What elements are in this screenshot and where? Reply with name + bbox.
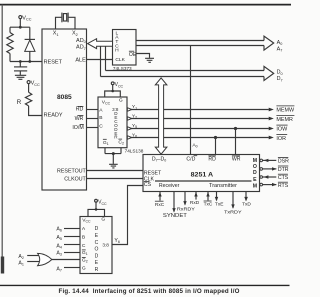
pin RTS [260, 182, 289, 189]
svg-text:8251 A: 8251 A [191, 172, 214, 179]
wire A5 input [64, 236, 80, 238]
ground (latch OE) [145, 58, 154, 62]
pin WR (8251) [232, 156, 241, 162]
svg-text:Receiver: Receiver [159, 183, 180, 189]
diode D1 [25, 39, 35, 61]
svg-text:RxD: RxD [190, 200, 200, 206]
power VCC2 terminal [27, 81, 40, 87]
pin G1 (decoder2) [82, 250, 88, 256]
svg-text:CLK: CLK [115, 57, 125, 63]
svg-text:RD: RD [76, 107, 84, 113]
svg-text:RD: RD [208, 156, 216, 162]
wire VCC2 down [28, 84, 30, 93]
svg-text:IOW: IOW [276, 126, 288, 132]
svg-text:OE: OE [129, 52, 137, 58]
pin RD [76, 106, 84, 112]
pin TxRDY [224, 192, 242, 216]
internal divider line [155, 180, 252, 182]
pin C2 (decoder1) [118, 139, 124, 146]
svg-text:3:8: 3:8 [102, 242, 109, 247]
svg-text:Transmitter: Transmitter [209, 183, 237, 189]
wire A6 input [64, 228, 80, 230]
svg-text:74LS138: 74LS138 [125, 149, 144, 154]
or-gate G1 [38, 253, 52, 265]
wire RESETOUT to 8251 RESET [87, 170, 144, 172]
svg-text:G: G [82, 265, 86, 271]
svg-text:C: C [99, 124, 103, 130]
svg-text:RxC: RxC [155, 202, 165, 208]
node junction VCC1 [19, 26, 22, 29]
wire top of RC [10, 27, 30, 39]
node junction IOW to WR [234, 127, 237, 130]
svg-text:R: R [95, 267, 99, 273]
bus A0-A7 address bus [136, 36, 282, 53]
pin C/D (8251) [186, 156, 197, 163]
left border blob [1, 257, 4, 274]
svg-text:CTS: CTS [278, 175, 289, 181]
svg-text:O: O [253, 164, 257, 170]
svg-text:MEMW: MEMW [276, 107, 295, 113]
svg-text:READY: READY [44, 113, 63, 119]
svg-text:G: G [119, 97, 123, 103]
svg-text:TxRDY: TxRDY [224, 210, 242, 216]
pin RD (8251) [208, 156, 216, 162]
wire IOW line [127, 127, 274, 131]
svg-text:RxRDY: RxRDY [177, 206, 196, 212]
CPU 8085 [42, 29, 87, 190]
wire resistor to reset rail [9, 54, 11, 62]
net MEMR [276, 116, 294, 123]
pin G2 (decoder2) [82, 257, 88, 263]
svg-text:C: C [82, 243, 86, 249]
wire ALE to latch CLK [87, 59, 113, 61]
svg-text:RESETOUT: RESETOUT [57, 168, 87, 174]
wire IOW to 8251 WR [235, 129, 237, 155]
pin TxE [215, 192, 224, 208]
power VCC3 terminal [111, 82, 123, 88]
net IOR [276, 135, 287, 142]
wire WR to decoder B [87, 118, 99, 120]
svg-text:D7–D0: D7–D0 [152, 156, 166, 162]
node junction IOR to RD [214, 136, 217, 139]
net IOW [276, 125, 288, 132]
ground (capacitor) [15, 75, 26, 79]
wire IO/M to decoder C [87, 127, 99, 129]
capacitor C1 [14, 62, 27, 75]
svg-text:M: M [253, 183, 257, 189]
latch U2 74LS373 [113, 30, 137, 66]
decoder U4 (address decoder) [80, 217, 112, 274]
pin WR [75, 116, 84, 122]
wire A7 input [64, 267, 80, 269]
resistor R1 (reset pull-up) [7, 33, 13, 54]
pin RxRDY [177, 192, 196, 213]
wire A4 input [64, 244, 80, 246]
svg-text:TxE: TxE [215, 201, 224, 207]
wire IOR to 8251 RD [215, 138, 217, 155]
svg-text:IO/M: IO/M [72, 125, 83, 131]
bus arrow AD0-AD7 (latch to 8085) [88, 39, 113, 49]
svg-text:RTS: RTS [278, 183, 289, 189]
svg-text:TxC: TxC [204, 201, 213, 207]
svg-text:B: B [99, 115, 102, 121]
top border line [0, 4, 291, 6]
pin OE (latch) [129, 51, 137, 58]
wire RD to decoder A [87, 109, 99, 111]
pin RxC [155, 192, 165, 208]
wire A3 input [64, 252, 80, 254]
pin SYNDET [163, 192, 187, 220]
svg-text:C/D: C/D [186, 156, 195, 162]
pin TxC [204, 192, 213, 208]
wire A1 to OR [27, 261, 40, 263]
pin RxD [190, 192, 200, 207]
svg-text:MEMR: MEMR [276, 117, 293, 123]
wire enable pins to ground [105, 148, 121, 164]
svg-text:ALE: ALE [75, 57, 86, 63]
svg-text:CS: CS [144, 182, 152, 188]
svg-text:IOR: IOR [276, 136, 286, 142]
wire A0 to C/D of 8251 [190, 46, 192, 155]
svg-text:DSR: DSR [278, 158, 289, 164]
pin G1 (decoder1) [103, 139, 109, 146]
svg-text:Fig. 14.44 Interfacing of 825: Fig. 14.44 Interfacing of 8251 with 8085… [59, 288, 240, 295]
svg-text:C: C [95, 240, 99, 246]
wire VCC bracket decoder2 [88, 202, 105, 216]
svg-text:O: O [94, 247, 98, 253]
power VCC1 terminal [19, 15, 32, 21]
svg-text:RESET: RESET [44, 59, 63, 65]
wire Y6 to CS [112, 186, 143, 245]
crystal X1 [56, 13, 76, 29]
bus arrow D7-D0 vertical to 8251 [155, 78, 167, 154]
svg-text:DTR: DTR [278, 167, 289, 173]
wire VCC1 down [19, 19, 21, 28]
pin DSR [260, 158, 289, 165]
wire IOR line [127, 136, 274, 140]
wire A2 to OR [27, 255, 40, 257]
svg-text:D: D [253, 170, 257, 176]
left border line [1, 5, 3, 258]
svg-text:G: G [101, 216, 105, 222]
net MEMW [276, 106, 295, 113]
USART 8251A [143, 155, 260, 192]
bus D0-D7 data bus [101, 66, 283, 82]
pin DTR [260, 166, 289, 173]
label DECODER vertical (decoder1) [114, 111, 118, 140]
pin TxD [242, 192, 251, 208]
svg-text:WR: WR [232, 156, 241, 162]
svg-text:E: E [253, 177, 257, 183]
node junction VCC3 [111, 90, 114, 93]
node junction VCC4 [95, 208, 98, 211]
wire CLKOUT to 8251 CLK [87, 178, 144, 180]
svg-text:SYNDET: SYNDET [163, 213, 187, 219]
pin CS (8251) [144, 182, 152, 188]
pin IO/M [72, 125, 83, 131]
svg-text:R: R [17, 99, 22, 106]
label DECODER vertical (decoder2) [94, 226, 98, 273]
svg-text:D: D [95, 226, 99, 232]
svg-text:TxD: TxD [242, 202, 251, 208]
svg-text:B: B [82, 234, 85, 240]
wire data bus ribbon verticals [101, 46, 106, 76]
node junction ground decoder1 [112, 152, 115, 155]
label LATCH vertical [115, 30, 119, 53]
svg-text:8085: 8085 [57, 94, 72, 101]
wire VCC bracket decoder1 [105, 85, 121, 97]
decoder U3 74LS138 [98, 97, 127, 148]
wire MEMW line [127, 108, 274, 112]
pin CTS [260, 174, 289, 181]
svg-text:H: H [115, 48, 119, 54]
wire OE to ground [136, 54, 150, 58]
svg-text:WR: WR [75, 116, 84, 122]
svg-text:D: D [95, 253, 99, 259]
label MODEM vertical [253, 158, 257, 189]
caption rule [0, 284, 290, 286]
node junction diode [28, 60, 31, 63]
power VCC4 terminal [95, 199, 107, 206]
wire MEMR line [127, 117, 274, 121]
wire R to READY [29, 106, 42, 116]
ground (decoder1) [109, 164, 118, 168]
node junction cap [19, 60, 22, 63]
wire OR output to G2 [52, 259, 80, 261]
wire RESET rail [10, 61, 42, 63]
svg-text:CLKOUT: CLKOUT [64, 176, 86, 182]
resistor R (ready pull-up) [25, 92, 31, 106]
